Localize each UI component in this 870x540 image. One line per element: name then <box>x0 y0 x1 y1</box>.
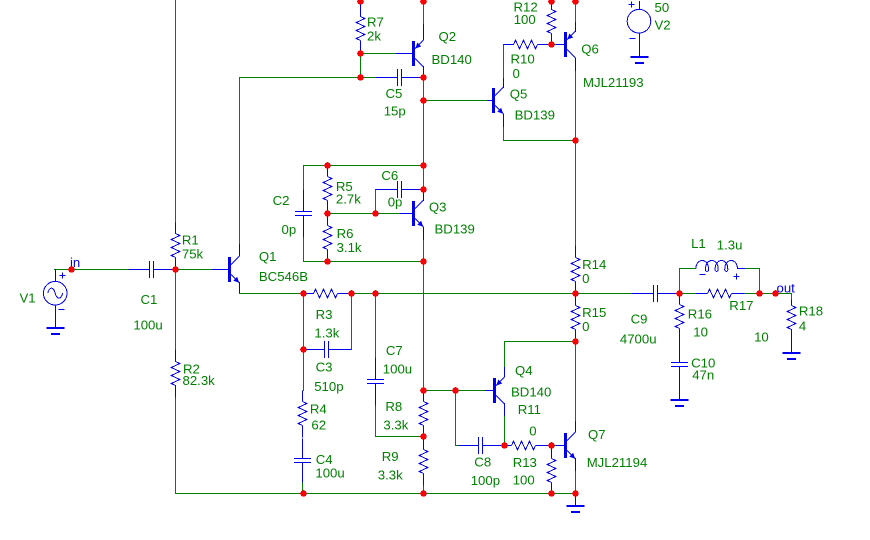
label V1 <box>20 290 36 305</box>
svg-text:MJL21193: MJL21193 <box>583 75 644 90</box>
svg-text:100u: 100u <box>133 318 162 333</box>
svg-text:C1: C1 <box>141 292 158 307</box>
junction R14-R15-fb <box>572 290 579 297</box>
svg-text:Q1: Q1 <box>259 249 277 264</box>
svg-text:10: 10 <box>693 324 708 339</box>
wire R17 left <box>679 293 696 295</box>
label C2 <box>273 193 290 208</box>
wire R4 top <box>303 349 305 391</box>
capacitor C7 <box>367 358 384 406</box>
junction rail-Q7em <box>572 490 579 497</box>
value C8 <box>471 473 500 488</box>
junction C7 top <box>372 290 379 297</box>
svg-text:0: 0 <box>582 271 589 286</box>
resistor R9 <box>419 437 428 486</box>
wire main out <box>303 293 314 295</box>
wire bias net mid <box>327 213 376 215</box>
wire Q1 collector to C5 node <box>239 77 361 79</box>
value R17 <box>754 330 769 345</box>
value C6 <box>388 195 403 210</box>
value R12 <box>514 12 536 27</box>
wire V1 top corner <box>54 269 72 271</box>
svg-text:2.7k: 2.7k <box>336 192 361 207</box>
resistor R16 <box>675 294 684 341</box>
value L1 <box>717 238 743 253</box>
svg-text:C8: C8 <box>474 455 491 470</box>
svg-text:out: out <box>777 280 796 295</box>
wire C6 left drop <box>375 189 377 214</box>
transistor Q6 <box>556 22 576 71</box>
value C7 <box>383 362 412 377</box>
capacitor C2 <box>295 190 312 238</box>
value Q6 <box>583 75 644 90</box>
resistor R1 <box>171 223 180 270</box>
wire Q3 emitter down <box>423 239 425 262</box>
junction biasnet-botL <box>324 258 331 265</box>
ground R18 <box>783 329 801 359</box>
svg-text:510p: 510p <box>314 379 343 394</box>
resistor R8 <box>419 391 428 437</box>
resistor R15 <box>571 294 580 342</box>
junction R15-Q4 <box>572 338 579 345</box>
value R6 <box>337 240 362 255</box>
label R10 <box>511 52 535 67</box>
wire C2 branch top <box>303 165 305 190</box>
wire in node <box>71 269 129 271</box>
wire C7 top <box>375 293 377 358</box>
value R16 <box>693 324 708 339</box>
svg-text:R3: R3 <box>316 307 333 322</box>
label Q1 <box>259 249 277 264</box>
value Q5 <box>515 107 555 122</box>
label R9 <box>382 449 399 464</box>
wire C7 to R8R9 <box>375 436 424 438</box>
junction Q1em-R3 <box>300 290 307 297</box>
resistor R13 <box>547 446 556 494</box>
junction biasnet-botR <box>420 258 427 265</box>
label R1 <box>182 233 199 248</box>
wire feedback <box>375 293 576 295</box>
resistor R10 <box>504 40 552 49</box>
junction C5-left <box>357 74 364 81</box>
value R10 <box>513 66 520 81</box>
value R18 <box>799 319 806 334</box>
wire Q5 collector corner <box>503 44 514 46</box>
svg-text:BD140: BD140 <box>511 384 551 399</box>
svg-text:R18: R18 <box>799 303 823 318</box>
value R2 <box>183 373 216 388</box>
wire bias top <box>303 165 424 167</box>
wire V2 col <box>639 1 641 10</box>
wire Q5 collector up <box>503 44 505 79</box>
label R13 <box>513 455 537 470</box>
svg-text:R6: R6 <box>337 226 354 241</box>
wire Q4 emitter up <box>504 341 506 368</box>
junction Q5base <box>420 97 427 104</box>
label R4 <box>310 402 327 417</box>
label R2 <box>183 362 200 377</box>
label C7 <box>386 343 403 358</box>
svg-text:R9: R9 <box>382 449 399 464</box>
wire out col to R14 <box>575 140 577 246</box>
svg-text:Q6: Q6 <box>581 42 599 57</box>
wire C2 branch bottom <box>303 237 305 262</box>
svg-text:L1: L1 <box>691 236 706 251</box>
label Q5 <box>510 86 528 101</box>
svg-text:R13: R13 <box>513 455 537 470</box>
value R7 <box>367 29 381 44</box>
label Q4 <box>515 363 533 378</box>
junction C3 left <box>300 346 307 353</box>
capacitor C3 <box>304 341 352 358</box>
svg-text:0: 0 <box>529 424 536 439</box>
label C4 <box>316 452 333 467</box>
value V2 <box>655 0 670 15</box>
wire out node <box>759 293 792 295</box>
net label out <box>777 280 796 295</box>
svg-text:4700u: 4700u <box>620 331 657 346</box>
junction biasnet-topR <box>420 162 427 169</box>
value C4 <box>315 466 344 481</box>
label R12 <box>514 0 538 14</box>
label Q7 <box>588 427 606 442</box>
svg-text:15p: 15p <box>384 104 406 119</box>
junction C1-R1-R2 <box>172 266 179 273</box>
svg-text:R17: R17 <box>729 298 753 313</box>
capacitor C6 <box>376 181 424 198</box>
svg-text:Q2: Q2 <box>439 29 457 44</box>
wire L1 right top <box>744 268 760 270</box>
junction C8-Q4coll-R11 <box>501 442 508 449</box>
wire Q2 emitter up <box>423 1 425 25</box>
svg-text:R1: R1 <box>182 233 199 248</box>
label R8 <box>385 399 402 414</box>
wire Q1 collector up <box>239 77 241 245</box>
junction in node <box>68 266 75 273</box>
wire Q7 emitter down <box>575 470 577 494</box>
svg-text:BD139: BD139 <box>435 222 475 237</box>
junction rail-R12 <box>548 0 555 5</box>
ground V1 <box>47 328 65 334</box>
value R9 <box>378 468 403 483</box>
transistor Q4 <box>485 367 505 416</box>
svg-text:R14: R14 <box>582 257 606 272</box>
svg-text:100: 100 <box>514 12 536 27</box>
wire R15 to Q7 <box>575 341 577 422</box>
net label in <box>70 255 80 270</box>
inductor L1 <box>696 260 745 279</box>
resistor R3 <box>304 289 352 298</box>
label R6 <box>337 226 354 241</box>
junction R5-R6 <box>324 210 331 217</box>
capacitor C8 <box>459 437 505 454</box>
label R18 <box>799 303 823 318</box>
wire VAS col to R8 <box>423 261 425 391</box>
value R15 <box>582 319 589 334</box>
svg-text:C3: C3 <box>316 360 333 375</box>
value C5 <box>384 104 406 119</box>
label L1 <box>691 236 706 251</box>
wire C3 right col <box>351 293 353 350</box>
junction R8-R9-C7 <box>420 433 427 440</box>
label R3 <box>316 307 333 322</box>
capacitor C4 <box>294 439 311 483</box>
label C3 <box>316 360 333 375</box>
junction R8 top <box>420 387 427 394</box>
svg-text:0: 0 <box>513 66 520 81</box>
value R13 <box>513 473 535 488</box>
wire R8 top node <box>423 390 456 392</box>
resistor R2 <box>171 350 180 398</box>
label R11 <box>518 402 541 417</box>
svg-text:47n: 47n <box>692 368 714 383</box>
value C9 <box>620 331 657 346</box>
svg-text:100: 100 <box>513 473 535 488</box>
junction C9-R16-L1 <box>676 290 683 297</box>
capacitor C5 <box>376 69 424 86</box>
wire C8 drop <box>455 390 457 446</box>
value R14 <box>582 271 589 286</box>
svg-text:100u: 100u <box>383 362 412 377</box>
value Q7 <box>587 455 648 470</box>
svg-text:R10: R10 <box>511 52 535 67</box>
label C5 <box>386 86 403 101</box>
ground V2 <box>631 57 649 63</box>
junction rail-R9 <box>420 490 427 497</box>
svg-text:MJL21194: MJL21194 <box>587 455 648 470</box>
junction R7-Q2base <box>357 50 364 57</box>
capacitor C1 <box>129 261 176 278</box>
value Q3 <box>435 222 475 237</box>
svg-text:BC546B: BC546B <box>259 269 308 284</box>
label R15 <box>582 305 606 320</box>
label C10 <box>691 355 715 370</box>
value Q1 <box>259 269 308 284</box>
capacitor C10 <box>671 341 688 401</box>
svg-text:C9: C9 <box>631 311 648 326</box>
svg-text:0p: 0p <box>388 195 403 210</box>
value Q4 <box>511 384 551 399</box>
junction R11-R13-Q7base <box>548 442 555 449</box>
svg-text:10: 10 <box>754 330 769 345</box>
svg-text:100p: 100p <box>471 473 500 488</box>
resistor R18 <box>787 300 796 330</box>
transistor Q7 <box>556 421 576 471</box>
svg-text:0: 0 <box>582 319 589 334</box>
svg-text:1.3k: 1.3k <box>314 326 339 341</box>
junction L1-R17 right <box>756 290 763 297</box>
transistor Q1 <box>212 244 240 293</box>
resistor R5 <box>323 166 332 214</box>
wire C8 left corner <box>455 445 459 447</box>
wire Q1 emitter corner <box>239 292 241 294</box>
resistor R7 <box>356 5 365 54</box>
transistor Q5 <box>487 78 504 127</box>
svg-text:R8: R8 <box>385 399 402 414</box>
label V2 <box>655 18 671 33</box>
wire R1-R2 column <box>175 269 177 362</box>
svg-text:100u: 100u <box>315 466 344 481</box>
svg-text:R7: R7 <box>367 15 384 30</box>
wire C5 left <box>360 77 376 79</box>
svg-text:3.3k: 3.3k <box>383 418 408 433</box>
svg-text:BD140: BD140 <box>432 52 472 67</box>
svg-text:R11: R11 <box>518 402 541 417</box>
wire C9 left <box>575 293 632 295</box>
wire R2 to bottom rail <box>175 385 177 494</box>
wire Q6 base lead <box>551 44 557 46</box>
junction rail-R7 <box>357 0 364 5</box>
junction Q4base-C8 <box>452 387 459 394</box>
svg-text:BD139: BD139 <box>515 107 555 122</box>
resistor R17 <box>696 289 745 298</box>
svg-text:4: 4 <box>799 319 806 334</box>
svg-text:V2: V2 <box>655 18 671 33</box>
label C8 <box>474 455 491 470</box>
wire Q6 col top <box>575 1 577 23</box>
wire C3 left col <box>303 293 305 350</box>
svg-text:82.3k: 82.3k <box>183 373 216 388</box>
label R16 <box>688 307 712 322</box>
svg-text:Q7: Q7 <box>588 427 606 442</box>
resistor R11 <box>505 441 552 450</box>
wire R7 bottom to Q2 base <box>360 53 397 55</box>
svg-text:0p: 0p <box>282 222 297 237</box>
voltage source V1 <box>43 269 67 329</box>
wire Q4 base <box>455 390 486 392</box>
wire Q2 collector node down <box>423 77 425 101</box>
wire R12 top <box>551 1 553 10</box>
svg-text:50: 50 <box>655 0 670 15</box>
label R7 <box>367 15 384 30</box>
svg-text:62: 62 <box>311 417 326 432</box>
svg-text:C5: C5 <box>386 86 403 101</box>
label C9 <box>631 311 648 326</box>
value R1 <box>182 246 204 261</box>
value R5 <box>336 192 361 207</box>
junction C6-Q3coll <box>420 186 427 193</box>
label R17 <box>729 298 753 313</box>
wire Q3 base <box>375 213 401 215</box>
wire R7 top <box>360 1 362 17</box>
svg-text:C6: C6 <box>381 168 398 183</box>
junction biasnet-topL <box>324 162 331 169</box>
junction C5-Q2coll <box>420 74 427 81</box>
capacitor C9 <box>632 285 680 302</box>
resistor R12 <box>547 3 556 45</box>
wire input column top <box>175 0 177 234</box>
resistor R14 <box>571 246 580 294</box>
junction Q3base-C6 <box>372 210 379 217</box>
resistor R4 <box>298 391 307 438</box>
value R11 <box>529 424 536 439</box>
junction R10-R12-Q6base <box>548 41 555 48</box>
svg-text:75k: 75k <box>182 246 204 261</box>
wire Q6 emitter down <box>575 70 577 141</box>
value R4 <box>311 417 326 432</box>
wire Q5 emitter down <box>503 126 505 141</box>
resistor R6 <box>323 214 332 262</box>
wire Q5 base <box>423 100 488 102</box>
svg-text:2k: 2k <box>367 29 381 44</box>
svg-text:C2: C2 <box>273 193 290 208</box>
svg-text:C7: C7 <box>386 343 403 358</box>
svg-text:R16: R16 <box>688 307 712 322</box>
wire out corner down <box>791 293 793 301</box>
svg-text:Q4: Q4 <box>515 363 533 378</box>
wire Q7 base lead <box>551 445 557 447</box>
wire R3 right node <box>351 293 376 295</box>
voltage source V2 <box>627 1 651 58</box>
svg-text:3.3k: 3.3k <box>378 468 403 483</box>
svg-text:R4: R4 <box>310 402 327 417</box>
junction Q5-Q6 emitters <box>572 137 579 144</box>
junction R3-C3col <box>348 290 355 297</box>
junction rail-C4 <box>300 490 307 497</box>
label Q3 <box>429 200 447 215</box>
wire R7 node down <box>360 53 362 78</box>
transistor Q2 <box>396 24 424 78</box>
svg-text:R15: R15 <box>582 305 606 320</box>
value C10 <box>692 368 714 383</box>
label Q2 <box>439 29 457 44</box>
wire L1 left top <box>679 268 696 270</box>
wire bottom rail <box>175 493 576 495</box>
svg-text:Q3: Q3 <box>429 200 447 215</box>
transistor Q3 <box>400 189 424 240</box>
wire Q4 collector down <box>504 415 506 446</box>
wire Q1 emitter to R3 <box>239 293 304 295</box>
wire L1 right down <box>759 268 761 294</box>
value C2 <box>282 222 297 237</box>
wire C4 bottom <box>302 482 304 494</box>
junction rail-R13 <box>548 490 555 497</box>
wire Q1 base <box>175 269 213 271</box>
label C6 <box>381 168 398 183</box>
label C1 <box>141 292 158 307</box>
label Q6 <box>581 42 599 57</box>
wire R17 right <box>744 293 760 295</box>
svg-text:V1: V1 <box>20 290 36 305</box>
wire VAS col C6 seg <box>423 165 425 190</box>
wire bias bottom <box>303 261 424 263</box>
svg-text:Q5: Q5 <box>510 86 528 101</box>
junction rail-Q2 <box>420 0 427 5</box>
label R5 <box>336 179 353 194</box>
wire L1 left up <box>679 268 681 294</box>
label R14 <box>582 257 606 272</box>
wire Q5 emitter to out col <box>503 140 576 142</box>
ground C10 <box>671 366 689 406</box>
svg-text:1.3u: 1.3u <box>717 238 743 253</box>
junction rail-Q6 <box>572 0 579 5</box>
value R8 <box>383 418 408 433</box>
value R3 <box>314 326 339 341</box>
wire R9 bottom <box>423 485 425 494</box>
wire C7 bottom corner <box>375 405 377 437</box>
value Q2 <box>432 52 472 67</box>
svg-text:3.1k: 3.1k <box>337 240 362 255</box>
wire Q4 emitter corner <box>504 341 576 343</box>
wire VAS column mid <box>423 100 425 166</box>
junction out node <box>772 290 779 297</box>
value C3 <box>314 379 343 394</box>
value C1 <box>133 318 162 333</box>
ground output stage <box>567 493 585 512</box>
